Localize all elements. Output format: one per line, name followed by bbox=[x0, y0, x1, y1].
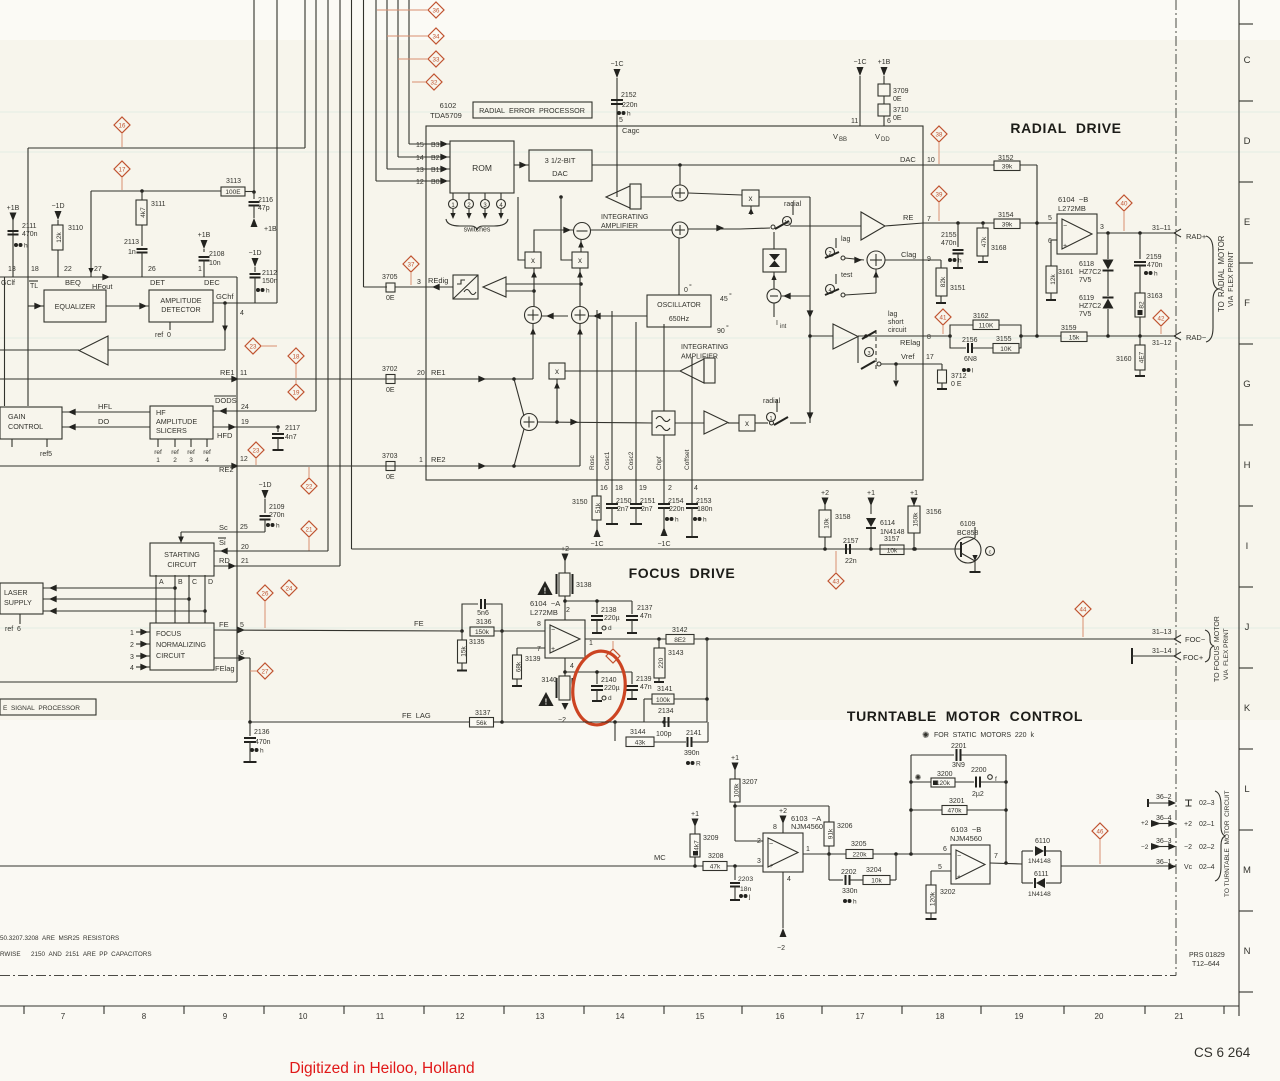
svg-text:LASER: LASER bbox=[4, 588, 28, 597]
svg-text:150n: 150n bbox=[262, 278, 278, 285]
svg-text:41: 41 bbox=[940, 314, 947, 321]
svg-text:FOCUS: FOCUS bbox=[156, 629, 181, 638]
svg-text:12: 12 bbox=[240, 456, 248, 463]
svg-text:B2: B2 bbox=[431, 155, 440, 162]
svg-text:40: 40 bbox=[1121, 200, 1128, 207]
svg-text:1: 1 bbox=[156, 457, 160, 464]
svg-text:3144: 3144 bbox=[630, 729, 646, 736]
svg-text:−2: −2 bbox=[777, 945, 785, 952]
svg-text:2152: 2152 bbox=[621, 92, 637, 99]
svg-text:470n: 470n bbox=[941, 240, 957, 247]
svg-text:10k: 10k bbox=[871, 878, 882, 885]
svg-text:17: 17 bbox=[926, 354, 934, 361]
svg-text:3202: 3202 bbox=[940, 889, 956, 896]
svg-text:17: 17 bbox=[119, 166, 126, 173]
svg-text:15k: 15k bbox=[1069, 335, 1080, 342]
svg-text:15k: 15k bbox=[461, 646, 468, 657]
svg-text:h: h bbox=[703, 517, 707, 524]
svg-text:RAD+: RAD+ bbox=[1186, 232, 1207, 241]
svg-text:−: − bbox=[957, 853, 961, 860]
svg-text:2116: 2116 bbox=[258, 197, 273, 204]
svg-text:3709: 3709 bbox=[893, 88, 909, 95]
svg-text:45: 45 bbox=[720, 296, 728, 303]
svg-text:+2: +2 bbox=[1184, 821, 1192, 828]
svg-text:56k: 56k bbox=[476, 720, 487, 727]
svg-text:3139: 3139 bbox=[525, 656, 541, 663]
svg-text:18: 18 bbox=[615, 485, 623, 492]
svg-text:0E: 0E bbox=[893, 115, 902, 122]
svg-text:3110: 3110 bbox=[68, 225, 83, 232]
svg-text:h: h bbox=[1154, 271, 1158, 278]
svg-text:3142: 3142 bbox=[672, 627, 688, 634]
svg-text:5: 5 bbox=[240, 622, 244, 629]
svg-text:02–3: 02–3 bbox=[1199, 800, 1215, 807]
svg-text:220µ: 220µ bbox=[604, 685, 620, 692]
svg-text:36: 36 bbox=[433, 7, 440, 14]
svg-text:470k: 470k bbox=[947, 808, 962, 815]
svg-text:8: 8 bbox=[927, 334, 931, 341]
svg-text:1: 1 bbox=[130, 630, 134, 637]
svg-text:3: 3 bbox=[757, 858, 761, 865]
svg-text:B1: B1 bbox=[431, 167, 440, 174]
svg-text:Vref: Vref bbox=[901, 352, 915, 361]
svg-text:0E: 0E bbox=[386, 387, 395, 394]
svg-text:21: 21 bbox=[241, 558, 249, 565]
svg-text:3168: 3168 bbox=[991, 245, 1007, 252]
svg-text:3: 3 bbox=[130, 654, 134, 661]
svg-text:2155: 2155 bbox=[941, 232, 957, 239]
svg-text:ref 6: ref 6 bbox=[5, 626, 21, 633]
svg-text:3113: 3113 bbox=[226, 178, 241, 185]
svg-text:470n: 470n bbox=[22, 231, 38, 238]
svg-text:−2: −2 bbox=[1184, 844, 1192, 851]
svg-text:I: I bbox=[776, 320, 778, 327]
svg-text:HFL: HFL bbox=[98, 402, 112, 411]
svg-text:G: G bbox=[1243, 379, 1250, 390]
svg-text:7: 7 bbox=[61, 1012, 66, 1021]
svg-text:2200: 2200 bbox=[971, 767, 987, 774]
svg-text:17: 17 bbox=[856, 1012, 865, 1021]
svg-text:6109: 6109 bbox=[960, 521, 976, 528]
svg-text:36–4: 36–4 bbox=[1156, 815, 1172, 822]
svg-text:E SIGNAL PROCESSOR: E SIGNAL PROCESSOR bbox=[3, 705, 80, 712]
svg-text:PRS 01829: PRS 01829 bbox=[1189, 952, 1225, 959]
svg-text:3208: 3208 bbox=[708, 853, 724, 860]
svg-text:3158: 3158 bbox=[835, 514, 851, 521]
svg-text:2203: 2203 bbox=[738, 876, 753, 883]
svg-text:6: 6 bbox=[943, 846, 947, 853]
svg-text:2136: 2136 bbox=[254, 729, 270, 736]
svg-text:SLICERS: SLICERS bbox=[156, 426, 187, 435]
svg-text:D: D bbox=[208, 579, 213, 586]
svg-text:c: c bbox=[989, 550, 992, 556]
svg-text:3205: 3205 bbox=[851, 841, 867, 848]
svg-text:!: ! bbox=[544, 586, 547, 595]
svg-text:+2: +2 bbox=[821, 490, 829, 497]
svg-text:0 E: 0 E bbox=[951, 381, 962, 388]
svg-text:°: ° bbox=[689, 283, 692, 291]
svg-text:150k: 150k bbox=[475, 629, 490, 636]
svg-text:13: 13 bbox=[416, 167, 424, 174]
svg-text:10K: 10K bbox=[1000, 346, 1012, 353]
svg-text:L272MB: L272MB bbox=[530, 608, 558, 617]
svg-text:h: h bbox=[276, 523, 280, 530]
svg-text:18n: 18n bbox=[740, 886, 752, 893]
svg-text:B3: B3 bbox=[431, 142, 440, 149]
svg-text:3155: 3155 bbox=[996, 336, 1012, 343]
svg-text:INTEGRATING: INTEGRATING bbox=[601, 214, 648, 221]
svg-text:39k: 39k bbox=[1002, 222, 1013, 229]
svg-text:H: H bbox=[1244, 460, 1251, 471]
svg-text:8: 8 bbox=[537, 621, 541, 628]
svg-text:6N8: 6N8 bbox=[964, 356, 977, 363]
svg-text:+1: +1 bbox=[691, 811, 699, 818]
svg-text:3163: 3163 bbox=[1147, 293, 1163, 300]
svg-text:1N4148: 1N4148 bbox=[880, 529, 905, 536]
svg-text:14: 14 bbox=[416, 155, 424, 162]
svg-text:7: 7 bbox=[994, 853, 998, 860]
svg-text:1a: 1a bbox=[784, 220, 790, 226]
svg-text:TURNTABLE MOTOR CONTROL: TURNTABLE MOTOR CONTROL bbox=[847, 708, 1083, 724]
svg-text:7V5: 7V5 bbox=[1079, 277, 1092, 284]
svg-text:2141: 2141 bbox=[686, 730, 702, 737]
svg-text:+: + bbox=[1063, 243, 1067, 250]
svg-text:+2: +2 bbox=[779, 808, 787, 815]
svg-text:circuit: circuit bbox=[888, 327, 906, 334]
svg-text:VIA FLEX PRINT: VIA FLEX PRINT bbox=[1228, 251, 1235, 307]
svg-text:VIA FLEX PRINT: VIA FLEX PRINT bbox=[1223, 628, 1230, 680]
svg-text:42: 42 bbox=[1158, 315, 1165, 322]
svg-text:A: A bbox=[159, 579, 164, 586]
svg-text:ref: ref bbox=[154, 449, 162, 456]
svg-text:+: + bbox=[551, 646, 555, 653]
svg-text:3: 3 bbox=[1100, 224, 1104, 231]
svg-text:−1C: −1C bbox=[590, 541, 603, 548]
svg-text:220µ: 220µ bbox=[604, 615, 620, 622]
svg-text:2n7: 2n7 bbox=[641, 506, 653, 513]
svg-text:C: C bbox=[192, 579, 197, 586]
svg-text:−1D: −1D bbox=[248, 250, 261, 257]
svg-text:6119: 6119 bbox=[1079, 295, 1094, 302]
svg-text:d: d bbox=[608, 625, 612, 632]
svg-text:3: 3 bbox=[189, 457, 193, 464]
svg-text:Cosc1: Cosc1 bbox=[604, 451, 611, 470]
svg-text:RElag: RElag bbox=[900, 338, 920, 347]
svg-text:3702: 3702 bbox=[382, 366, 398, 373]
svg-text:120k: 120k bbox=[936, 780, 951, 787]
svg-text:22n: 22n bbox=[845, 558, 857, 565]
svg-text:24: 24 bbox=[241, 404, 249, 411]
svg-text:−1C: −1C bbox=[853, 59, 866, 66]
svg-text:1: 1 bbox=[589, 640, 593, 647]
svg-text:TO FOCUS MOTOR: TO FOCUS MOTOR bbox=[1214, 616, 1221, 682]
svg-text:12: 12 bbox=[456, 1012, 465, 1021]
svg-text:−: − bbox=[551, 627, 555, 634]
svg-text:82: 82 bbox=[1139, 301, 1146, 309]
svg-text:6104 −B: 6104 −B bbox=[1058, 195, 1088, 204]
svg-text:CIRCUIT: CIRCUIT bbox=[167, 560, 197, 569]
svg-text:31–13: 31–13 bbox=[1152, 629, 1172, 636]
svg-text:11: 11 bbox=[240, 370, 247, 377]
svg-text:2156: 2156 bbox=[962, 337, 978, 344]
svg-text:2150: 2150 bbox=[616, 498, 632, 505]
svg-text:L272MB: L272MB bbox=[1058, 204, 1086, 213]
svg-text:+2: +2 bbox=[1141, 820, 1149, 827]
svg-text:−2: −2 bbox=[558, 717, 566, 724]
svg-text:16: 16 bbox=[776, 1012, 785, 1021]
svg-text:0E: 0E bbox=[893, 96, 902, 103]
svg-text:220k: 220k bbox=[852, 852, 867, 859]
svg-text:47k: 47k bbox=[981, 236, 988, 247]
svg-text:3204: 3204 bbox=[866, 867, 882, 874]
svg-text:36–3: 36–3 bbox=[1156, 838, 1172, 845]
svg-text:390n: 390n bbox=[684, 750, 700, 757]
svg-text:220n: 220n bbox=[669, 506, 685, 513]
svg-text:43k: 43k bbox=[635, 740, 646, 747]
svg-text:32: 32 bbox=[431, 79, 438, 86]
svg-text:7: 7 bbox=[927, 216, 931, 223]
svg-text:23: 23 bbox=[253, 447, 260, 454]
svg-text:DO: DO bbox=[98, 417, 109, 426]
svg-text:33: 33 bbox=[433, 56, 440, 63]
svg-text:2134: 2134 bbox=[658, 708, 674, 715]
svg-text:2112: 2112 bbox=[262, 270, 277, 277]
svg-text:AMPLIFIER: AMPLIFIER bbox=[681, 354, 718, 361]
svg-text:AMPLIFIER: AMPLIFIER bbox=[601, 223, 638, 230]
svg-text:14: 14 bbox=[616, 1012, 625, 1021]
svg-text:1N4148: 1N4148 bbox=[1028, 858, 1051, 865]
svg-text:✺: ✺ bbox=[922, 730, 930, 740]
svg-text:26: 26 bbox=[262, 590, 269, 597]
svg-text:I: I bbox=[1246, 541, 1249, 552]
svg-text:20: 20 bbox=[417, 370, 425, 377]
svg-text:2151: 2151 bbox=[640, 498, 656, 505]
svg-text:15: 15 bbox=[416, 142, 424, 149]
svg-text:B0: B0 bbox=[431, 179, 440, 186]
svg-text:+2: +2 bbox=[561, 546, 569, 553]
svg-text:FE LAG: FE LAG bbox=[402, 711, 431, 720]
svg-text:ref: ref bbox=[171, 449, 179, 456]
svg-text:0E: 0E bbox=[386, 295, 395, 302]
svg-text:27: 27 bbox=[94, 266, 102, 273]
svg-text:44: 44 bbox=[1080, 606, 1087, 613]
svg-text:2: 2 bbox=[566, 607, 570, 614]
svg-text:Cagc: Cagc bbox=[622, 126, 640, 135]
svg-text:47k: 47k bbox=[710, 864, 721, 871]
svg-text:Rosc: Rosc bbox=[589, 454, 596, 470]
svg-text:RADIAL ERROR PROCESSOR: RADIAL ERROR PROCESSOR bbox=[479, 106, 585, 115]
svg-text:0: 0 bbox=[684, 287, 688, 294]
svg-text:HZ7C2: HZ7C2 bbox=[1079, 269, 1101, 276]
svg-text:2157: 2157 bbox=[843, 538, 859, 545]
svg-text:h: h bbox=[266, 288, 270, 295]
svg-text:18: 18 bbox=[936, 1012, 945, 1021]
svg-text:90: 90 bbox=[717, 328, 725, 335]
svg-text:3156: 3156 bbox=[926, 509, 942, 516]
svg-text:short: short bbox=[888, 319, 904, 326]
svg-text:M: M bbox=[1243, 865, 1251, 876]
svg-text:2n7: 2n7 bbox=[617, 506, 629, 513]
svg-text:3160: 3160 bbox=[1116, 356, 1132, 363]
svg-text:°: ° bbox=[726, 324, 729, 332]
svg-text:2113: 2113 bbox=[124, 239, 139, 246]
svg-text:switches: switches bbox=[464, 227, 491, 234]
svg-text:470n: 470n bbox=[255, 739, 271, 746]
svg-text:TO RADIAL MOTOR: TO RADIAL MOTOR bbox=[1217, 235, 1226, 312]
svg-text:h: h bbox=[260, 748, 264, 755]
svg-text:−: − bbox=[1063, 223, 1067, 230]
svg-text:5: 5 bbox=[619, 117, 623, 124]
svg-text:39: 39 bbox=[936, 191, 943, 198]
svg-text:Si: Si bbox=[219, 538, 226, 547]
svg-text:RAD−: RAD− bbox=[1186, 333, 1207, 342]
svg-text:RADIAL DRIVE: RADIAL DRIVE bbox=[1010, 120, 1121, 136]
svg-text:3161: 3161 bbox=[1058, 269, 1074, 276]
svg-text:RE: RE bbox=[903, 213, 913, 222]
svg-text:1: 1 bbox=[198, 266, 202, 273]
svg-text:1n: 1n bbox=[128, 249, 136, 256]
svg-text:BEQ: BEQ bbox=[65, 278, 81, 287]
svg-text:RE2: RE2 bbox=[219, 465, 234, 474]
svg-text:Clag: Clag bbox=[901, 250, 916, 259]
svg-text:HFD: HFD bbox=[217, 431, 233, 440]
svg-text:3N9: 3N9 bbox=[952, 762, 965, 769]
svg-text:K: K bbox=[1244, 703, 1251, 714]
svg-text:x: x bbox=[555, 367, 559, 376]
svg-text:16: 16 bbox=[119, 122, 126, 129]
svg-text:+: + bbox=[769, 863, 773, 870]
svg-text:RE2: RE2 bbox=[431, 455, 446, 464]
svg-text:50.3207.3208 ARE MSR25 RESI: 50.3207.3208 ARE MSR25 RESISTORS bbox=[0, 935, 119, 942]
svg-text:test: test bbox=[841, 272, 852, 279]
svg-text:36–2: 36–2 bbox=[1156, 794, 1172, 801]
svg-text:C: C bbox=[1244, 55, 1251, 66]
svg-text:47p: 47p bbox=[258, 205, 270, 212]
svg-text:2137: 2137 bbox=[637, 605, 653, 612]
svg-text:3206: 3206 bbox=[837, 823, 853, 830]
svg-text:180n: 180n bbox=[697, 506, 713, 513]
svg-text:lag: lag bbox=[841, 236, 850, 243]
svg-text:5: 5 bbox=[1048, 215, 1052, 222]
svg-text:int: int bbox=[780, 324, 787, 330]
svg-text:ref: ref bbox=[203, 449, 211, 456]
svg-text:ref 0: ref 0 bbox=[155, 332, 171, 339]
svg-text:j: j bbox=[748, 894, 750, 901]
svg-text:R: R bbox=[696, 761, 701, 768]
svg-text:6114: 6114 bbox=[880, 520, 895, 527]
svg-text:100k: 100k bbox=[656, 697, 671, 704]
svg-text:FE: FE bbox=[414, 619, 424, 628]
svg-text:24: 24 bbox=[286, 585, 293, 592]
svg-text:2109: 2109 bbox=[269, 504, 285, 511]
svg-text:2153: 2153 bbox=[696, 498, 712, 505]
svg-text:B: B bbox=[178, 579, 183, 586]
svg-text:19: 19 bbox=[639, 485, 647, 492]
svg-text:7V5: 7V5 bbox=[1079, 311, 1092, 318]
svg-text:2154: 2154 bbox=[668, 498, 684, 505]
svg-text:RE1: RE1 bbox=[431, 368, 446, 377]
svg-text:FOCUS DRIVE: FOCUS DRIVE bbox=[629, 565, 736, 581]
svg-text:20: 20 bbox=[1095, 1012, 1104, 1021]
svg-text:EQUALIZER: EQUALIZER bbox=[55, 302, 96, 311]
svg-text:12: 12 bbox=[416, 179, 424, 186]
svg-text:RE1: RE1 bbox=[220, 368, 235, 377]
svg-text:−1C: −1C bbox=[657, 541, 670, 548]
svg-text:4: 4 bbox=[205, 457, 209, 464]
svg-text:HZ7C2: HZ7C2 bbox=[1079, 303, 1101, 310]
svg-text:3154: 3154 bbox=[998, 212, 1014, 219]
svg-text:20: 20 bbox=[241, 544, 249, 551]
svg-text:f: f bbox=[995, 776, 997, 783]
svg-text:SUPPLY: SUPPLY bbox=[4, 598, 32, 607]
svg-text:Chpf: Chpf bbox=[656, 456, 663, 470]
svg-text:220: 220 bbox=[658, 657, 665, 668]
svg-text:HF: HF bbox=[156, 408, 166, 417]
svg-text:110K: 110K bbox=[979, 323, 994, 330]
svg-text:−1D: −1D bbox=[258, 482, 271, 489]
svg-text:6110: 6110 bbox=[1035, 838, 1050, 845]
svg-text:+1B: +1B bbox=[7, 205, 20, 212]
svg-text:650Hz: 650Hz bbox=[669, 316, 690, 323]
svg-text:6118: 6118 bbox=[1079, 261, 1094, 268]
svg-text:°: ° bbox=[729, 292, 732, 300]
svg-text:3: 3 bbox=[417, 279, 421, 286]
svg-text:3207: 3207 bbox=[742, 779, 758, 786]
svg-text:10k: 10k bbox=[824, 518, 831, 529]
svg-text:4k7: 4k7 bbox=[140, 207, 147, 218]
svg-text:11: 11 bbox=[851, 118, 858, 125]
svg-text:ROM: ROM bbox=[472, 163, 492, 173]
svg-text:DODS: DODS bbox=[215, 396, 237, 405]
svg-text:22: 22 bbox=[64, 266, 72, 273]
svg-text:100E: 100E bbox=[225, 189, 241, 196]
svg-text:330n: 330n bbox=[842, 888, 858, 895]
svg-text:ref5: ref5 bbox=[40, 451, 52, 458]
svg-text:16: 16 bbox=[600, 485, 608, 492]
svg-text:OSCILLATOR: OSCILLATOR bbox=[657, 302, 701, 309]
svg-text:CS 6 264: CS 6 264 bbox=[1194, 1045, 1251, 1060]
svg-text:4: 4 bbox=[130, 665, 134, 672]
svg-text:18: 18 bbox=[293, 353, 300, 360]
svg-text:27: 27 bbox=[262, 668, 269, 675]
svg-text:NORMALIZING: NORMALIZING bbox=[156, 640, 206, 649]
svg-text:3140: 3140 bbox=[541, 677, 557, 684]
svg-text:15: 15 bbox=[696, 1012, 705, 1021]
svg-text:10n: 10n bbox=[209, 260, 221, 267]
svg-text:18: 18 bbox=[31, 266, 39, 273]
svg-text:13: 13 bbox=[536, 1012, 545, 1021]
svg-text:2202: 2202 bbox=[841, 869, 857, 876]
svg-text:31–12: 31–12 bbox=[1152, 340, 1172, 347]
svg-text:h: h bbox=[627, 111, 631, 118]
svg-text:26: 26 bbox=[148, 266, 156, 273]
svg-text:3705: 3705 bbox=[382, 274, 398, 281]
svg-text:−: − bbox=[769, 841, 773, 848]
svg-text:+1B: +1B bbox=[264, 226, 277, 233]
svg-text:DAC: DAC bbox=[552, 169, 568, 178]
svg-text:FElag: FElag bbox=[215, 664, 235, 673]
svg-text:3143: 3143 bbox=[668, 650, 684, 657]
svg-text:6104 −A: 6104 −A bbox=[530, 599, 560, 608]
svg-text:NJM4560: NJM4560 bbox=[791, 822, 823, 831]
svg-text:3137: 3137 bbox=[475, 710, 491, 717]
svg-text:lag: lag bbox=[888, 311, 897, 318]
svg-text:3159: 3159 bbox=[1061, 325, 1077, 332]
svg-text:270n: 270n bbox=[269, 512, 285, 519]
svg-text:100k: 100k bbox=[734, 783, 741, 798]
svg-text:8: 8 bbox=[773, 824, 777, 831]
svg-text:3141: 3141 bbox=[657, 686, 673, 693]
